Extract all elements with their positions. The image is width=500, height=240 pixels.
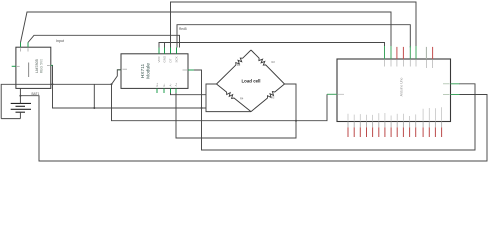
HX711 top pins [159, 48, 177, 54]
wire regulator bottom pin to battery plus junction [19, 88, 21, 95]
wire regulator right pin down to H1 rail [53, 65, 207, 108]
resistor R4 arm bottom-left [217, 84, 252, 112]
wire battery minus to left rail [1, 118, 20, 120]
svg-text:R1: R1 [237, 63, 241, 67]
svg-text:R2: R2 [272, 60, 276, 64]
wire HX711 A+ pin down to y129.6 then to bridge right [176, 84, 296, 138]
svg-text:SCK: SCK [175, 56, 179, 62]
resistor R3 arm bottom-right [251, 84, 285, 112]
node bridge-right/y119 junction [295, 120, 297, 122]
HX711 rotated label [140, 63, 152, 79]
svg-text:E+: E+ [155, 82, 159, 86]
svg-text:DT: DT [169, 58, 173, 62]
svg-text:A-: A- [169, 83, 173, 86]
resistor R2 arm top-right [251, 50, 285, 84]
svg-text:Module: Module [146, 63, 152, 79]
svg-text:LM7805: LM7805 [35, 59, 39, 73]
HX711 top pin labels [157, 55, 179, 63]
svg-text:R3: R3 [271, 96, 275, 100]
svg-text:Input: Input [56, 39, 64, 43]
wire net W1 top (HX711 pin3 to Arduino D-pin) [171, 2, 417, 48]
wire net W2 (regulator output to Arduino 5V) [21, 12, 392, 48]
regulator U1 internal mark [28, 63, 30, 78]
battery stems [19, 96, 21, 104]
Arduino top pin labels [385, 60, 433, 68]
svg-text:E-: E- [162, 83, 166, 86]
wire net W5 (HX711 DT to Arduino pin) [159, 43, 385, 48]
wire bridge left vertex link [206, 84, 251, 112]
resistor labels [237, 60, 275, 101]
svg-text:GND: GND [163, 55, 167, 63]
regulator U1 right pin [51, 64, 53, 66]
Arduino left pin [327, 93, 337, 95]
wire HX711 left pin down to y119 rail and to Arduino left pin [112, 70, 328, 121]
Arduino top pins [385, 46, 433, 59]
Arduino bottom pins [348, 127, 442, 137]
regulator pin number marks [17, 48, 50, 66]
Arduino rotated label [400, 77, 404, 96]
HX711 bottom pins [157, 88, 176, 93]
svg-text:HX711: HX711 [140, 64, 146, 79]
svg-text:Arduino Uno: Arduino Uno [400, 77, 404, 96]
Arduino bottom pin stubs [348, 122, 442, 128]
wire v-link from y84 rail to H1 [93, 84, 95, 108]
svg-text:VCC: VCC [157, 55, 161, 62]
wire battery junction to bottom rail [20, 95, 487, 162]
regulator U1 top pins [20, 43, 22, 48]
svg-text:BAT1: BAT1 [32, 92, 40, 96]
HX711 right pin [188, 69, 194, 71]
Arduino right pin labels [443, 83, 450, 85]
svg-text:Load cell: Load cell [241, 79, 260, 84]
HX711 left pin [117, 69, 121, 71]
wire tick pin2 [164, 43, 166, 48]
Arduino left pin label [338, 93, 344, 95]
load cell bridge diamond [217, 50, 285, 112]
HX711 module box [121, 54, 188, 89]
node regulator-wire crossing [52, 83, 54, 85]
wire HX711 right pin down through H1 to y150 rail [194, 70, 475, 150]
HX711 side pin labels [123, 68, 188, 71]
regulator U1 left pin [12, 65, 16, 67]
node battery junction [19, 95, 21, 97]
Arduino bottom pin labels inside [348, 107, 442, 120]
svg-text:A+: A+ [174, 82, 178, 86]
node v-link bottom [93, 107, 95, 109]
wire net W3 (HX711 SCK to Arduino pin) [177, 25, 410, 48]
wire net W4 (regulator pin2 to HX711 VCC) [28, 35, 180, 47]
wire HX711 A- pin to bridge left/bottom [171, 93, 207, 95]
HX711 bottom pin labels [155, 82, 178, 86]
Arduino right pins [451, 83, 460, 85]
wire full-width net at y=84 (battery minus rail) [1, 84, 111, 118]
resistor R1 arm top-left [217, 50, 252, 84]
Arduino board box [337, 59, 451, 122]
regulator U1 rotated label [35, 59, 44, 73]
battery BT1 [11, 103, 31, 112]
svg-text:R4: R4 [240, 97, 244, 101]
node H1 junction [201, 107, 203, 109]
node y84 rail end [111, 83, 113, 85]
regulator U1 box [16, 47, 51, 88]
svg-text:REG 5V0: REG 5V0 [40, 59, 44, 73]
svg-text:Red5: Red5 [179, 27, 187, 31]
